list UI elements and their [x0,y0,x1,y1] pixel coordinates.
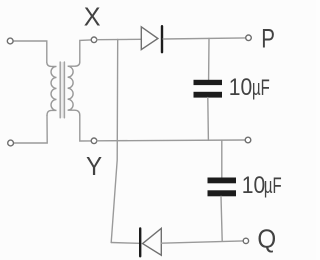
wire: bottom rail left segment (branch corner to diode D2 cathode) [111,242,139,245]
wire: top rail junction down to capacitor C1 [208,39,210,80]
wire: capacitor C2 down to bottom rail [221,196,222,241]
input terminal (bottom left) [8,140,14,146]
input terminal (top left) [7,38,13,44]
diode D2 cathode bar [139,229,141,257]
terminal Q [243,238,248,243]
terminal P [246,35,252,41]
terminal Y [91,138,97,144]
wire: node X to diode D1 anode [97,38,142,40]
wire: diode D2 anode to terminal Q [161,241,243,243]
transformer primary winding [47,62,57,115]
diode D1 (triangle) [141,27,158,50]
capacitor C2 (two plates) [208,178,237,197]
svg-text:Q: Q [257,225,276,254]
diode D2 (triangle, pointing left) [143,228,162,255]
transformer core (two bars) [60,62,64,118]
svg-text:P: P [261,24,275,54]
wire: middle rail junction down to capacitor C2 [221,140,223,177]
diode D1 cathode bar [161,26,163,52]
wire: middle rail from node Y to right terminal [97,139,245,142]
wire: secondary top to node X [80,40,91,62]
wire: diode D1 cathode to terminal P [163,38,246,39]
svg-text:10: 10 [242,172,265,199]
svg-text:Y: Y [86,152,102,181]
wire: secondary bottom to node Y [80,116,91,142]
wire: bottom-left terminal to transformer primary [14,116,48,144]
svg-text:10: 10 [229,74,252,101]
svg-text:µF: µF [264,173,282,198]
terminal X [91,37,97,43]
transformer core band (light fill) [60,62,64,118]
transformer secondary winding [68,62,80,116]
wire: vertical branch from top rail down to bottom rail [111,40,118,243]
wire: capacitor C1 down to middle rail [207,98,210,141]
svg-text:X: X [84,3,101,31]
wire: top-left terminal to transformer primary [13,41,47,62]
capacitor C1 (two plates) [194,80,223,98]
svg-text:µF: µF [252,75,270,100]
terminal (middle right, unlabeled) [245,137,251,143]
